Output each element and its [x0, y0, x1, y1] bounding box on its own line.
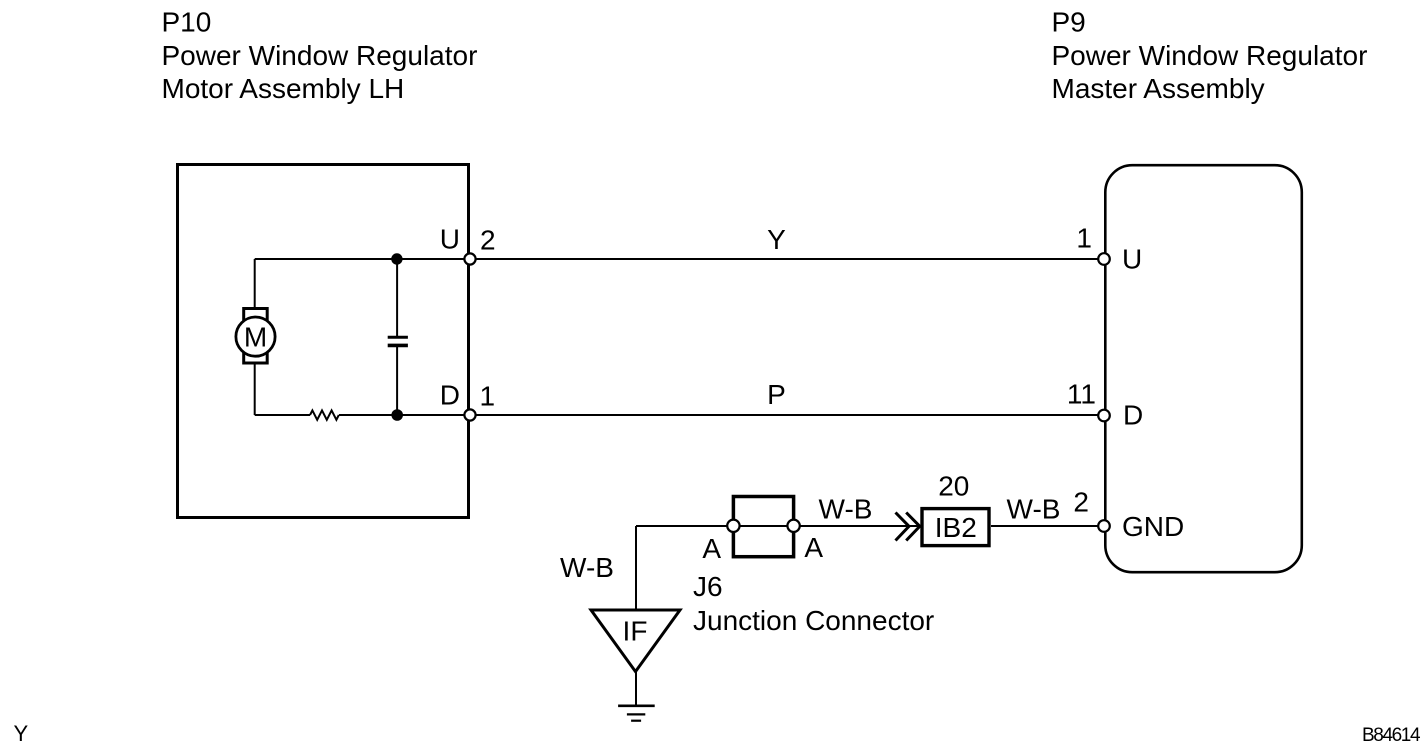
svg-text:IB2: IB2	[935, 512, 977, 543]
capacitor branch wire	[396, 259, 398, 336]
node junction dot top	[391, 253, 402, 264]
svg-text:Master Assembly: Master Assembly	[1052, 73, 1265, 104]
splice arrows (double chevron)	[896, 513, 910, 541]
svg-text:20: 20	[938, 471, 969, 502]
svg-text:M: M	[244, 321, 267, 352]
connector P10 label text	[162, 7, 478, 105]
motor M (circle body)	[236, 317, 275, 356]
resistor R (inline squiggle)	[310, 410, 339, 419]
svg-text:A: A	[804, 532, 823, 563]
svg-text:Y: Y	[14, 721, 29, 746]
motor M (case rectangle)	[244, 309, 268, 364]
svg-text:B84614: B84614	[1362, 725, 1421, 746]
svg-text:IF: IF	[623, 616, 648, 647]
svg-text:Power Window Regulator: Power Window Regulator	[1052, 40, 1368, 71]
connector P10 box	[178, 165, 469, 518]
svg-text:P9: P9	[1052, 7, 1086, 38]
svg-text:D: D	[440, 380, 460, 411]
connector P9 label text	[1052, 7, 1368, 105]
node junction dot bottom	[391, 409, 403, 421]
svg-text:A: A	[702, 533, 721, 564]
capacitor C plates	[388, 336, 408, 339]
pin circle 11 (P9)	[1098, 410, 1110, 422]
svg-text:1: 1	[1076, 223, 1092, 254]
wire W-B ground segment (junction to IB2)	[636, 525, 920, 527]
svg-text:P: P	[767, 379, 786, 410]
svg-text:P10: P10	[162, 7, 212, 38]
wire P (pin 1 to pin 11, net D)	[255, 414, 310, 416]
wire W-B (IB2 to GND pin)	[991, 525, 1104, 527]
svg-text:W-B: W-B	[819, 493, 873, 524]
svg-text:U: U	[1122, 244, 1142, 275]
svg-text:Junction Connector: Junction Connector	[693, 605, 934, 636]
pin circle 1 (P9)	[1098, 253, 1110, 265]
svg-text:2: 2	[1073, 487, 1089, 518]
pin A circle right (J6)	[787, 520, 799, 532]
wire Y (pin 2 to pin 1, net U)	[255, 258, 1104, 260]
svg-text:2: 2	[480, 225, 496, 256]
svg-text:Power Window Regulator: Power Window Regulator	[162, 40, 478, 71]
svg-text:W-B: W-B	[560, 552, 614, 583]
ground symbol	[618, 704, 655, 707]
junction connector J6 triangle IF	[591, 610, 680, 672]
svg-text:D: D	[1123, 400, 1143, 431]
svg-text:U: U	[440, 224, 460, 255]
svg-text:J6: J6	[693, 571, 723, 602]
connector P9 rounded box	[1105, 165, 1302, 572]
ground stem wire	[635, 672, 637, 706]
wire motor left branch	[254, 259, 256, 310]
svg-text:GND: GND	[1122, 511, 1184, 542]
svg-text:W-B: W-B	[1007, 493, 1061, 524]
pin A circle left (J6)	[727, 520, 739, 532]
pin 2 circle of P10	[464, 253, 475, 264]
pin circle 2 GND (P9)	[1098, 520, 1110, 532]
wire W-B vertical drop to junction connector	[635, 526, 637, 610]
pin 1 circle of P10	[464, 409, 475, 420]
svg-text:Y: Y	[767, 224, 786, 255]
svg-text:Motor Assembly LH: Motor Assembly LH	[162, 73, 405, 104]
svg-text:1: 1	[480, 381, 496, 412]
svg-text:11: 11	[1067, 379, 1096, 410]
junction connector J6 box	[733, 497, 793, 557]
IB2 box	[922, 509, 989, 546]
